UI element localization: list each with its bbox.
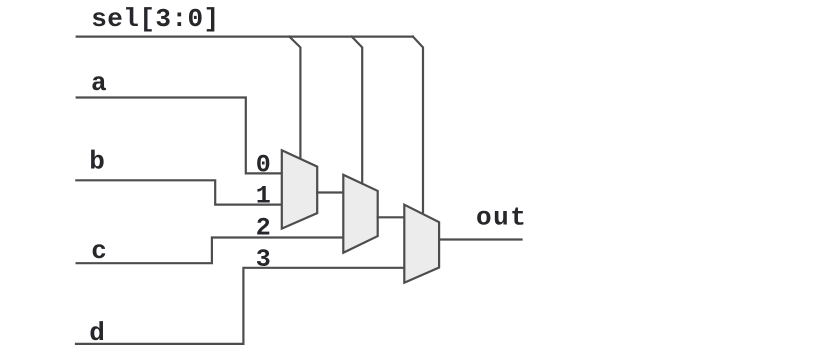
svg-text:c: c	[91, 236, 107, 266]
wire sel bus horizontal	[77, 35, 413, 37]
wire sel tap to MUX2 select	[352, 37, 362, 183]
svg-text:2: 2	[256, 214, 271, 243]
mux U3 (2-to-1 mux, selects d)	[404, 205, 439, 283]
svg-text:3: 3	[256, 245, 271, 274]
wire b to MUX1 input 1	[76, 180, 281, 204]
wire c to MUX2 input 1	[77, 238, 344, 264]
svg-text:1: 1	[256, 181, 271, 210]
svg-text:0: 0	[256, 150, 271, 179]
mux U1 (2-to-1 mux a/b)	[282, 150, 317, 228]
wire sel tap to MUX1 select	[289, 37, 300, 159]
svg-text:sel[3:0]: sel[3:0]	[91, 4, 219, 34]
mux U2 (2-to-1 mux, selects c)	[343, 175, 377, 253]
wire U1 output to U2 input 0	[317, 191, 343, 193]
svg-text:a: a	[91, 68, 107, 98]
svg-text:out: out	[476, 203, 527, 233]
wire sel tap to MUX3 select	[413, 37, 423, 212]
wire U3 output to out	[439, 238, 521, 240]
wire U2 output to U3 input 0	[378, 216, 405, 218]
svg-text:b: b	[89, 147, 105, 177]
wire a to MUX1 input 0	[77, 98, 282, 174]
wire d to MUX3 input 1	[76, 268, 404, 344]
